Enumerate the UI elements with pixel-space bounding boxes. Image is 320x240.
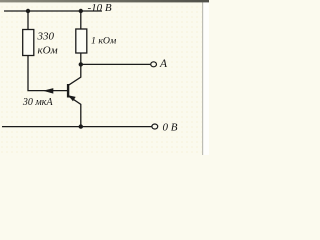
base current arrow 30uA xyxy=(43,88,53,94)
right border line xyxy=(202,0,203,155)
wire collector lead xyxy=(69,64,81,85)
junction dot collector node xyxy=(79,62,83,66)
svg-text:30 мкА: 30 мкА xyxy=(22,97,54,108)
junction dot emitter / bottom rail xyxy=(79,124,83,128)
right white margin xyxy=(203,0,209,155)
transistor Q1 emitter arrowhead (PNP, points into base) xyxy=(68,95,76,101)
wire bottom rail 0V xyxy=(2,126,152,128)
svg-text:330: 330 xyxy=(37,31,55,43)
transistor Q1 base bar xyxy=(67,84,69,98)
svg-text:кОм: кОм xyxy=(38,44,58,56)
terminal A open circle xyxy=(151,62,157,67)
wire output to terminal A xyxy=(81,63,151,65)
svg-text:0 В: 0 В xyxy=(163,121,178,133)
svg-text:-10 В: -10 В xyxy=(88,2,112,14)
junction dot top rail / R1 xyxy=(26,9,30,13)
svg-text:1 кОм: 1 кОм xyxy=(91,35,116,46)
wire R2 top lead xyxy=(80,11,82,29)
resistor R2 1 kOhm body xyxy=(76,29,87,53)
junction dot top rail / R2 xyxy=(79,9,83,13)
svg-text:A: A xyxy=(159,58,168,70)
wire R1 top lead xyxy=(27,11,29,30)
resistor R1 330 kOhm body xyxy=(23,30,34,56)
terminal 0V open circle xyxy=(152,124,158,129)
top border band xyxy=(0,0,209,2)
wire R1 bottom lead to base corner xyxy=(28,56,67,91)
wire R2 bottom lead xyxy=(80,53,82,64)
wire emitter lead xyxy=(69,97,81,127)
wire top rail -10V xyxy=(4,10,102,12)
